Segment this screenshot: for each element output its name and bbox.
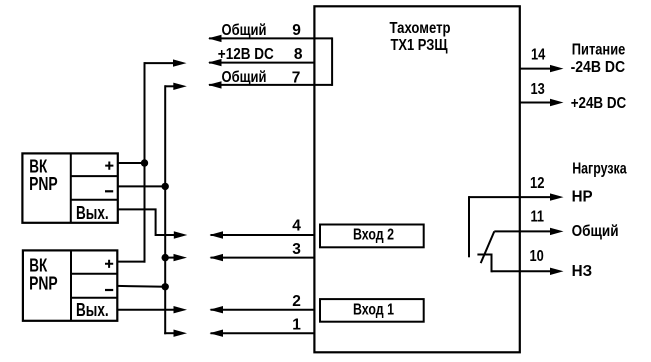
wire BV1 minus to bus B (117, 185, 166, 187)
pin 13 wire (520, 99, 564, 106)
svg-text:Тахометр: Тахометр (390, 20, 451, 37)
svg-text:3: 3 (292, 241, 301, 258)
sensor BV2 plus terminal (105, 260, 113, 268)
svg-text:НЗ: НЗ (572, 263, 593, 280)
svg-text:Питание: Питание (572, 41, 626, 58)
pin 12 wire (НР) (469, 193, 564, 200)
sensor BV2 label (29, 254, 58, 293)
internal jumper pins 9-7 (331, 37, 333, 86)
pin 10 wire (НЗ) (492, 268, 564, 275)
relay K1 normally-open contact line (468, 196, 470, 257)
bus A vertical (+12V bus) (144, 62, 146, 263)
svg-text:Вых.: Вых. (76, 202, 109, 223)
junction dot bus B / BV2 minus (162, 283, 169, 290)
pin 8 wire (+12В DC) (208, 59, 314, 66)
svg-text:7: 7 (292, 69, 301, 86)
sensor BV1 box (ВК PNP) (22, 153, 117, 222)
svg-text:11: 11 (531, 208, 545, 225)
svg-text:9: 9 (292, 22, 301, 39)
relay K1 movable blade (481, 231, 495, 263)
junction dot bus B / pin 3 branch (162, 254, 169, 261)
bus B branch to pin 3 (165, 254, 187, 261)
bus B to pin 7 arrow (165, 83, 187, 90)
junction dot bus B / BV1 minus (162, 183, 169, 190)
wire BV1 output to pin 4 (117, 209, 187, 238)
junction dot bus A / BV1 plus (141, 159, 148, 166)
svg-text:PNP: PNP (29, 173, 58, 194)
sensor BV1 label (29, 155, 58, 194)
svg-text:Вых.: Вых. (76, 299, 109, 320)
svg-text:4: 4 (292, 218, 301, 235)
sensor BV1 plus terminal (105, 162, 113, 170)
bus A to pin 8 arrow (145, 59, 187, 66)
pin 9 label (222, 22, 302, 39)
pin 8 label (218, 46, 303, 63)
svg-text:-24В DC: -24В DC (571, 59, 626, 76)
wire BV2 minus to bus B (117, 285, 167, 288)
svg-text:13: 13 (531, 81, 546, 98)
pin 7 label (222, 69, 301, 86)
svg-text:8: 8 (294, 46, 303, 63)
wire BV2 plus to bus A (117, 261, 146, 263)
svg-text:Общий: Общий (222, 22, 267, 39)
bus B vertical (common bus) (164, 85, 166, 334)
pin 1 wire (210, 330, 315, 337)
svg-text:10: 10 (530, 248, 544, 265)
tachometer U1 title (390, 20, 451, 54)
pin 3 wire (210, 254, 315, 261)
svg-text:1: 1 (292, 316, 301, 333)
input block Вход 1 box (320, 299, 424, 322)
tachometer U1 box (314, 6, 519, 352)
wire BV1 plus to bus A (117, 162, 146, 164)
sensor BV2 box (ВК PNP) (23, 250, 117, 320)
svg-text:+12В DC: +12В DC (218, 46, 274, 63)
pin 2 wire (210, 306, 315, 313)
svg-text:Нагрузка: Нагрузка (572, 161, 627, 178)
svg-text:PNP: PNP (29, 272, 58, 293)
pin 9 wire (Общий) (208, 35, 332, 42)
svg-text:2: 2 (292, 293, 301, 310)
svg-text:14: 14 (531, 47, 546, 64)
relay K1 NC contact lead (491, 254, 493, 273)
pin 14 wire (520, 65, 564, 72)
bus B to pin 1 wire (164, 330, 187, 337)
svg-text:НР: НР (572, 189, 593, 206)
wire BV2 output to pin 2 (117, 306, 188, 313)
relay K1 NC contact tick (477, 254, 491, 256)
pin 7 wire (Общий) (208, 81, 332, 88)
input block Вход 2 box (320, 225, 424, 248)
sensor BV1 minus terminal (105, 190, 113, 192)
pin 11 wire (Общий) (494, 228, 563, 235)
svg-text:ТХ1 РЗЩ: ТХ1 РЗЩ (391, 37, 448, 54)
svg-text:Общий: Общий (572, 223, 619, 240)
sensor BV2 minus terminal (105, 289, 113, 291)
svg-text:Вход 2: Вход 2 (353, 227, 394, 244)
svg-text:Вход 1: Вход 1 (353, 301, 394, 318)
svg-text:12: 12 (530, 175, 545, 192)
pin 4 wire (210, 231, 315, 238)
svg-text:+24В DC: +24В DC (571, 95, 627, 112)
svg-text:Общий: Общий (222, 69, 267, 86)
